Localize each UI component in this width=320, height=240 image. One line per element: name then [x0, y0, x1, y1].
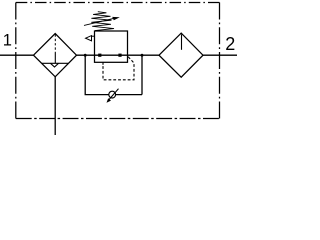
- svg-text:2: 2: [225, 34, 235, 54]
- svg-text:1: 1: [3, 32, 12, 50]
